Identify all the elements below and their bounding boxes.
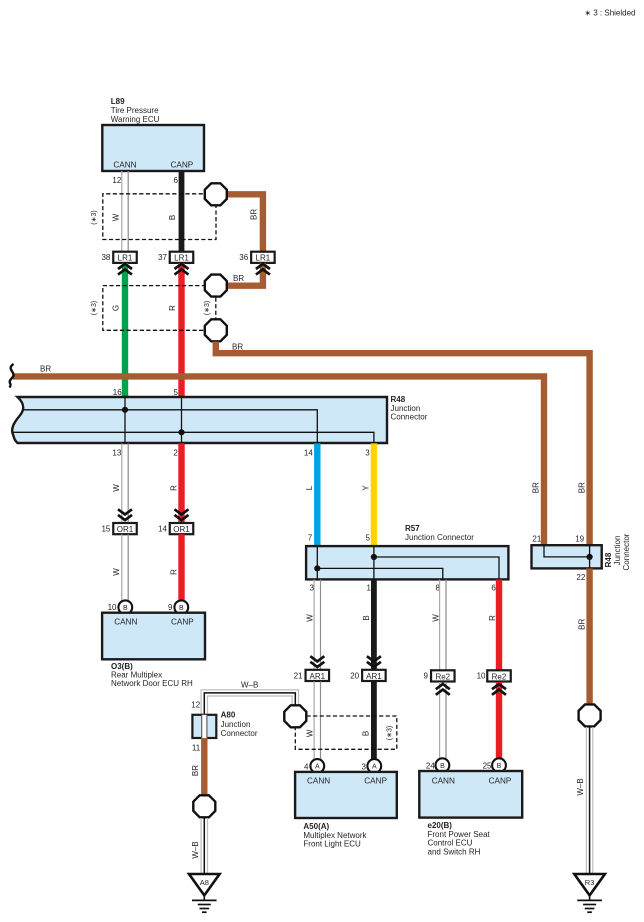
ECU e20(B) designation label <box>428 821 491 856</box>
ECU O3(B) Rear Multiplex Network Door ECU RH box <box>102 613 205 660</box>
junction dot at R48 pin 16 bus <box>122 407 128 413</box>
svg-text:5: 5 <box>174 388 179 397</box>
svg-text:LR1: LR1 <box>174 254 189 263</box>
junction connector R48 designation label <box>391 395 428 422</box>
svg-text:B: B <box>168 215 177 220</box>
svg-text:12: 12 <box>112 176 121 185</box>
svg-text:10: 10 <box>108 603 117 612</box>
svg-text:AR1: AR1 <box>310 672 326 681</box>
svg-text:10: 10 <box>477 672 486 681</box>
svg-text:BR: BR <box>250 209 259 220</box>
connector Re2-10 <box>487 670 511 681</box>
terminal circle A at A50 pin 4 <box>310 759 324 773</box>
svg-text:BR: BR <box>578 482 587 493</box>
svg-text:19: 19 <box>575 535 584 544</box>
svg-text:(∗3): (∗3) <box>91 210 98 224</box>
wire BR from shield octagon to connector LR1-36 <box>226 194 263 252</box>
shield octagon 3 <box>205 319 227 341</box>
svg-text:Junction: Junction <box>391 404 421 413</box>
svg-text:R: R <box>488 615 497 621</box>
svg-text:OR1: OR1 <box>117 525 134 534</box>
svg-text:6: 6 <box>173 176 178 185</box>
wire G from LR1-38 to junction connector R48 pin 16 <box>122 263 128 398</box>
svg-text:22: 22 <box>576 573 585 582</box>
junction connector R48 main box <box>12 397 387 443</box>
svg-text:3: 3 <box>362 763 367 772</box>
wire Y from R48 pin 3 to junction connector R57 pin 5 <box>371 443 377 546</box>
svg-text:BR: BR <box>191 765 200 776</box>
shield octagon 6 <box>579 704 601 726</box>
svg-text:BR: BR <box>40 365 51 374</box>
svg-text:Control ECU: Control ECU <box>428 839 473 848</box>
R48 pass-through line pins 16-13 <box>124 397 126 443</box>
ground R3 <box>574 874 605 912</box>
junction dot at R57 pin 7 <box>314 565 320 571</box>
wire R from LR1-37 to junction connector R48 pin 5 <box>178 263 184 398</box>
ECU L89 Tire Pressure Warning ECU box <box>102 125 204 171</box>
svg-text:R: R <box>170 569 179 575</box>
svg-text:Junction: Junction <box>613 536 622 566</box>
connector LR1-38 <box>113 252 137 263</box>
svg-text:37: 37 <box>158 253 167 262</box>
wire L from R48 pin 14 to junction connector R57 pin 7 <box>314 443 320 546</box>
svg-text:CANP: CANP <box>171 618 194 627</box>
chevron pair under LR1-37 <box>175 264 189 275</box>
svg-text:and Switch RH: and Switch RH <box>428 847 481 856</box>
svg-text:W: W <box>112 213 121 221</box>
svg-text:Warning ECU: Warning ECU <box>111 115 160 124</box>
svg-text:BR: BR <box>577 619 586 630</box>
svg-text:A80: A80 <box>221 711 236 720</box>
svg-text:CANN: CANN <box>307 776 330 785</box>
svg-text:CANP: CANP <box>364 776 387 785</box>
svg-text:25: 25 <box>483 762 492 771</box>
svg-text:CANP: CANP <box>489 777 512 786</box>
wire W from L89 pin 12 to connector LR1-38 <box>122 171 128 252</box>
connector LR1-37 <box>170 252 194 263</box>
chevron pair under LR1-38 <box>118 264 132 275</box>
ECU A50(A) Multiplex Network Front Light ECU box <box>295 772 397 818</box>
chevron pair above AR1-20 <box>367 656 381 667</box>
wire W from R57 pin 8 to connector Re2-9 <box>440 580 446 671</box>
wire BR from small R48 pin 22 to shield octagon 6 <box>586 569 592 704</box>
svg-text:Y: Y <box>362 485 371 491</box>
small R48 pass-through line pins 19-22 <box>589 545 591 568</box>
svg-text:4: 4 <box>304 763 309 772</box>
svg-text:BR: BR <box>233 274 244 283</box>
wire W from Re2-9 to e20 pin 24 <box>440 682 446 759</box>
R57 internal bus pin7 to pin8 <box>317 546 443 579</box>
svg-text:Re2: Re2 <box>435 672 450 681</box>
svg-text:L: L <box>305 485 314 490</box>
svg-text:R: R <box>168 305 177 311</box>
svg-text:3: 3 <box>365 449 370 458</box>
svg-text:15: 15 <box>101 525 110 534</box>
wire W-B from A80 pin 12 to shield octagon 4 <box>201 690 298 715</box>
svg-text:Network Door ECU RH: Network Door ECU RH <box>111 679 193 688</box>
break squiggle on BR wire <box>10 364 14 388</box>
terminal circle B at O3 pin 10 <box>118 600 132 614</box>
svg-text:5: 5 <box>366 534 371 543</box>
svg-text:AR1: AR1 <box>366 672 382 681</box>
svg-text:W–B: W–B <box>576 778 585 795</box>
svg-text:14: 14 <box>304 449 313 458</box>
ECU A50(A) designation label <box>303 822 367 848</box>
connector OR1-15 <box>113 523 137 534</box>
ground A8 <box>189 874 220 912</box>
svg-text:13: 13 <box>112 449 121 458</box>
svg-text:21: 21 <box>294 672 303 681</box>
svg-text:B: B <box>362 731 371 736</box>
junction connector R57 designation label <box>405 524 474 542</box>
wire B from R57 pin 1 to connector AR1-20 <box>371 580 377 670</box>
terminal circle B at e20 pin 25 <box>492 758 506 772</box>
svg-text:16: 16 <box>113 388 122 397</box>
svg-text:21: 21 <box>532 535 541 544</box>
svg-text:20: 20 <box>350 672 359 681</box>
svg-text:W: W <box>305 729 314 737</box>
svg-text:1: 1 <box>367 584 372 593</box>
wire R from OR1-14 to O3 pin 9 <box>178 534 184 600</box>
wire W-B from shield octagon 6 to ground R3 <box>586 727 592 874</box>
junction connector A80 designation label <box>221 711 258 738</box>
connector AR1-20 <box>362 670 386 681</box>
wire W from R57 pin 3 to connector AR1-21 <box>314 580 320 670</box>
ECU e20(B) Front Power Seat Control ECU box <box>419 771 522 818</box>
svg-text:G: G <box>112 305 121 311</box>
svg-text:W: W <box>112 568 121 576</box>
junction dot at R48 pin 2 bus <box>178 429 184 435</box>
svg-text:W: W <box>431 614 440 622</box>
svg-text:LR1: LR1 <box>256 254 271 263</box>
svg-text:∗ 3 : Shielded: ∗ 3 : Shielded <box>584 9 635 18</box>
svg-text:11: 11 <box>192 744 201 753</box>
R48 pass-through line pins 5-2 <box>181 397 183 443</box>
svg-text:Connector: Connector <box>622 533 631 570</box>
wire W from R48 pin 13 to connector OR1-15 <box>122 443 128 523</box>
terminal circle A at A50 pin 3 <box>367 759 381 773</box>
terminal circle B at O3 pin 9 <box>174 600 188 614</box>
svg-text:Re2: Re2 <box>492 672 507 681</box>
svg-text:LR1: LR1 <box>118 254 133 263</box>
svg-text:2: 2 <box>173 449 178 458</box>
svg-text:R3: R3 <box>585 878 595 887</box>
shield dashed box around W and B wires to A50 <box>295 716 397 749</box>
svg-text:CANP: CANP <box>171 161 194 170</box>
connector AR1-21 <box>306 670 330 681</box>
wire BR from A80 pin 11 to shield octagon 5 <box>201 738 207 795</box>
svg-text:L89: L89 <box>111 97 125 106</box>
junction connector R48 small box <box>532 545 602 568</box>
wire B from AR1-20 to A50 pin 3 <box>371 681 377 759</box>
junction dot at small R48 pin 19 <box>587 554 593 560</box>
wire BR from LR1-36 to shield octagon 2 <box>226 263 263 286</box>
svg-text:CANN: CANN <box>113 161 136 170</box>
wire R from Re2-10 to e20 pin 25 <box>496 682 502 759</box>
svg-text:9: 9 <box>168 603 173 612</box>
chevron pair above AR1-21 <box>310 656 324 667</box>
chevron pair above OR1-15 <box>118 509 132 520</box>
svg-text:9: 9 <box>423 672 428 681</box>
svg-text:(∗3): (∗3) <box>91 301 98 315</box>
shield octagon 4 <box>284 705 306 727</box>
svg-text:W: W <box>306 614 315 622</box>
svg-text:(∗3): (∗3) <box>204 301 211 315</box>
svg-text:W: W <box>112 484 121 492</box>
shield octagon 2 <box>205 275 227 297</box>
svg-text:A50(A): A50(A) <box>303 822 329 831</box>
chevron pair under Re2-10 <box>492 684 506 695</box>
svg-text:R: R <box>170 485 179 491</box>
svg-text:6: 6 <box>491 584 496 593</box>
junction connector A80 box <box>192 715 216 738</box>
connector Re2-9 <box>431 670 455 681</box>
svg-text:38: 38 <box>101 253 110 262</box>
svg-text:Junction: Junction <box>221 720 251 729</box>
wire BR from shield octagon 3 across to junction connector R48 pin 19 <box>216 342 590 546</box>
junction connector R57 box <box>306 546 508 579</box>
svg-text:A8: A8 <box>200 878 209 887</box>
svg-text:Connector: Connector <box>391 413 428 422</box>
svg-text:B: B <box>179 605 184 612</box>
svg-text:Tire Pressure: Tire Pressure <box>111 106 159 115</box>
svg-text:A: A <box>372 764 377 771</box>
svg-text:14: 14 <box>158 525 167 534</box>
svg-text:B: B <box>123 605 128 612</box>
R48 internal bus CANN: left edge to pin 14 drop <box>23 410 317 443</box>
svg-text:7: 7 <box>308 534 313 543</box>
svg-text:Front Power Seat: Front Power Seat <box>428 830 491 839</box>
shield octagon 5 <box>193 795 215 817</box>
svg-text:Junction Connector: Junction Connector <box>405 533 474 542</box>
terminal circle B at e20 pin 24 <box>436 758 450 772</box>
svg-text:W–B: W–B <box>191 841 200 858</box>
wire BR from break to junction connector R48 pin 21 <box>13 376 544 545</box>
svg-text:CANN: CANN <box>114 618 137 627</box>
svg-text:e20(B): e20(B) <box>428 821 453 830</box>
svg-text:A: A <box>315 764 320 771</box>
svg-text:OR1: OR1 <box>173 525 190 534</box>
svg-text:CANN: CANN <box>432 777 455 786</box>
svg-text:Connector: Connector <box>221 729 258 738</box>
shield octagon 1 at top of dashed box <box>205 183 227 205</box>
wire W from OR1-15 to O3 pin 10 <box>122 534 128 600</box>
chevron pair under LR1-36 <box>256 264 270 275</box>
ECU L89 designation label <box>111 97 160 124</box>
shield dashed box around W and B wires <box>103 194 216 240</box>
svg-text:BR: BR <box>232 342 243 351</box>
wire B from L89 pin 6 to connector LR1-37 <box>179 171 185 252</box>
connector LR1-36 <box>251 252 275 263</box>
svg-text:B: B <box>440 763 445 770</box>
small R48 internal bus pin21 to pin19 <box>544 545 590 557</box>
ECU O3(B) designation label <box>111 662 193 688</box>
svg-text:B: B <box>362 615 371 620</box>
svg-text:R48: R48 <box>391 395 406 404</box>
svg-text:24: 24 <box>426 762 435 771</box>
svg-text:BR: BR <box>532 482 541 493</box>
junction dot at R57 pin 5 <box>371 554 377 560</box>
svg-text:36: 36 <box>239 253 248 262</box>
junction connector small R48 designation label (rotated) <box>604 533 631 570</box>
svg-text:R57: R57 <box>405 524 420 533</box>
shield dashed box around G and R wires <box>103 286 216 331</box>
R48 internal bus CANP: left edge to pin 3 drop <box>13 432 374 443</box>
chevron pair under Re2-9 <box>436 684 450 695</box>
R57 internal bus pin5 to pin6 <box>374 546 499 579</box>
wire W-B from shield octagon 5 to ground A8 <box>201 818 207 874</box>
connector OR1-14 <box>170 523 194 534</box>
wire W from AR1-21 to A50 pin 4 <box>314 681 320 759</box>
svg-text:Front Light ECU: Front Light ECU <box>303 839 361 848</box>
svg-text:R48: R48 <box>604 552 613 567</box>
svg-text:B: B <box>497 763 502 770</box>
chevron pair above OR1-14 <box>175 509 189 520</box>
svg-text:W–B: W–B <box>241 681 258 690</box>
wire R from R48 pin 2 to connector OR1-14 <box>178 443 184 523</box>
svg-text:(∗3): (∗3) <box>386 726 393 740</box>
svg-text:12: 12 <box>191 701 200 710</box>
wire R from R57 pin 6 to connector Re2-10 <box>496 580 502 671</box>
